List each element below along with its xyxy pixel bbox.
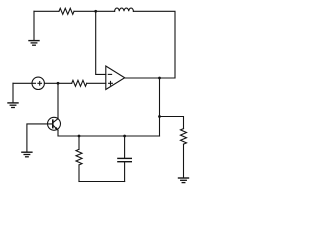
- ground G3 (base): [22, 152, 32, 157]
- wire top rail middle: [74, 10, 115, 12]
- ground G4 (load): [179, 178, 189, 183]
- wire op-amp output: [125, 77, 175, 79]
- node A junction: [57, 82, 60, 85]
- wire node A to collector: [57, 83, 59, 118]
- resistor R1: [59, 8, 74, 14]
- node junction emitter/C1: [123, 135, 126, 138]
- inductor L1: [115, 8, 134, 11]
- wire R3 top stem: [78, 136, 80, 149]
- wire load to ground: [183, 144, 185, 178]
- ground G1 (top-left): [29, 11, 39, 45]
- wire output down branch: [159, 78, 161, 136]
- wire R3 bottom stem: [78, 165, 80, 182]
- wire R2 to non-inverting input: [87, 82, 106, 84]
- node junction on output: [158, 77, 161, 80]
- node junction emitter/R3: [78, 135, 81, 138]
- capacitor C1: [118, 136, 131, 182]
- wire ground to source: [13, 82, 32, 84]
- wire to load resistor: [160, 117, 184, 129]
- wire source to node A: [44, 82, 71, 84]
- wire base: [27, 124, 53, 152]
- wire top rail right: [133, 11, 175, 78]
- resistor R4 (load): [181, 129, 187, 145]
- voltage source V1: [32, 77, 44, 89]
- node junction to load: [158, 115, 161, 118]
- node junction top (feedback tap): [94, 10, 97, 13]
- resistor R3: [76, 149, 82, 165]
- wire feedback to inverting input: [96, 11, 106, 74]
- ground G2 (source): [8, 83, 18, 107]
- transistor Q1: [48, 117, 61, 130]
- op-amp U1: [106, 66, 125, 90]
- wire bottom rail: [79, 181, 125, 183]
- wire top rail left: [34, 10, 59, 12]
- wire emitter row: [58, 130, 160, 136]
- resistor R2: [72, 80, 87, 86]
